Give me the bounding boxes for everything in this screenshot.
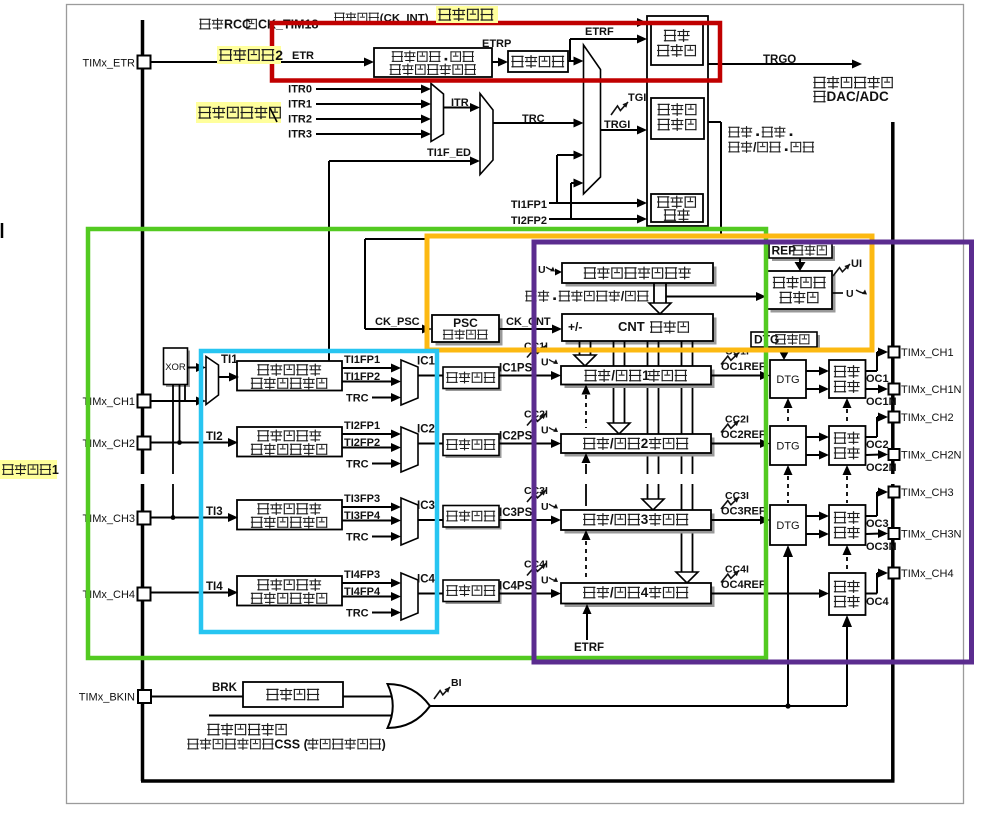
wire BRK: [151, 696, 243, 698]
wire TRC row3: [372, 532, 401, 541]
wire CH1 to TI1 mux: [151, 397, 206, 406]
svg-text:UI: UI: [851, 258, 862, 270]
svg-text:ITR1: ITR1: [288, 99, 312, 111]
label CK_PSC: [375, 316, 420, 328]
svg-text:IC3PS: IC3PS: [499, 507, 533, 519]
event arrow CC4I (left): [524, 559, 548, 576]
wires DTG2 to output control: [806, 433, 829, 460]
svg-text:ETRP: ETRP: [482, 38, 511, 50]
label TRGI: [604, 119, 630, 131]
wire XOR output to TI1 mux: [188, 363, 207, 372]
svg-text:TIMx_CH2: TIMx_CH2: [82, 438, 135, 450]
pin TIMx_CH3N: [889, 528, 900, 539]
label TRC row4: [346, 608, 369, 620]
update marker U row3: [541, 501, 558, 513]
update marker U row1: [541, 357, 558, 369]
box prescaler 预分频器 CH1: [443, 367, 502, 391]
label OC3REF: [721, 506, 766, 518]
wire TI1FP1 to encoder: [549, 199, 647, 208]
diagram frame bottom line: [141, 779, 895, 783]
box PSC prescaler: [432, 315, 503, 346]
svg-text:U: U: [541, 425, 549, 437]
wire CK_CNT: [499, 325, 562, 334]
box output control 2 输出控制: [829, 426, 866, 465]
label ITR: [451, 97, 469, 109]
label IC4: [417, 574, 436, 586]
box DTG register DTG寄存器: [751, 332, 820, 350]
XOR tap from CH2: [177, 385, 182, 445]
label OC2N: [866, 462, 897, 474]
svg-text:CC4I: CC4I: [725, 564, 749, 576]
wire IC3PS: [499, 516, 561, 525]
svg-text:U: U: [541, 357, 549, 369]
svg-text:TI3: TI3: [206, 506, 223, 518]
label OC3: [866, 518, 889, 530]
svg-text:BRK: BRK: [212, 682, 238, 694]
wire clock-fail to OR gate: [209, 715, 391, 717]
svg-text:TI1FP1: TI1FP1: [511, 199, 547, 211]
wire TI3FP4: [342, 516, 401, 525]
svg-text:IC4: IC4: [417, 574, 436, 586]
svg-text:U: U: [541, 501, 549, 513]
svg-text:OC2N: OC2N: [866, 462, 897, 474]
svg-text:TRGO: TRGO: [763, 54, 796, 66]
label ETRF: [585, 26, 614, 38]
label TIMx_CH3 (right): [901, 487, 954, 499]
wire TI1FP2: [342, 377, 401, 386]
svg-text:TI3FP3: TI3FP3: [344, 493, 380, 505]
label TI1FP2: [344, 371, 380, 383]
bus CNT to capture/compare 1: [574, 341, 596, 366]
svg-text:TIMx_BKIN: TIMx_BKIN: [79, 692, 135, 704]
svg-text:U: U: [538, 264, 546, 276]
update marker U into auto-reload: [538, 264, 562, 276]
label 来自RCC的CK_TIM18: [199, 17, 318, 31]
event arrow TGI: [611, 102, 628, 115]
label 停止、清除或向上/向下: [525, 289, 648, 303]
label to other timers 至其它定时器: [813, 76, 892, 89]
event arrow CC3I (right): [721, 490, 749, 509]
event arrow CC1I (right): [721, 346, 749, 365]
wires DTG3 to output control: [806, 512, 829, 539]
label TIMx_CH3N (right): [901, 529, 962, 541]
svg-text:TI4FP4: TI4FP4: [344, 586, 381, 598]
box repetition counter 重复次数计数器: [767, 271, 836, 313]
label ITR0: [288, 84, 312, 96]
label 时钟失效事件: [207, 723, 286, 736]
event arrow CC1I (left): [524, 341, 548, 358]
svg-text:IC1PS: IC1PS: [499, 363, 533, 375]
event arrow CC2I (right): [721, 414, 749, 433]
box trigger controller 触发控制器: [651, 24, 703, 65]
svg-text:TIMx_CH1: TIMx_CH1: [901, 347, 954, 359]
label ITR1: [288, 99, 312, 111]
label IC3PS: [499, 507, 533, 519]
svg-text:OC2: OC2: [866, 439, 889, 451]
svg-text:OC4: OC4: [866, 596, 890, 608]
svg-text:TI4FP3: TI4FP3: [344, 569, 380, 581]
label TI3FP3: [344, 493, 380, 505]
label OC2: [866, 439, 889, 451]
wire IC1PS: [499, 371, 561, 380]
svg-text:TI2FP2: TI2FP2: [344, 437, 380, 449]
wire TI1FP1: [342, 364, 401, 373]
label OC2REF: [721, 429, 766, 441]
wire OC2N to pin: [866, 450, 888, 459]
svg-text:CC3I: CC3I: [725, 490, 749, 502]
wire IC4 with tick: [418, 587, 443, 600]
box encoder interface 编码器接口: [651, 194, 703, 222]
update marker U at repetition counter: [832, 288, 867, 300]
box output control 1 输出控制: [829, 360, 866, 398]
label 来自时钟控制器CSS: [187, 737, 385, 751]
svg-text:TI2FP2: TI2FP2: [511, 215, 547, 227]
arrow REP to repetition counter: [795, 258, 806, 271]
wire IC3 with tick: [418, 514, 443, 527]
svg-text:OC2REF: OC2REF: [721, 429, 766, 441]
label up/down count 向上/向下、计数: [728, 140, 814, 154]
box capture/compare register 2 捕获/比较2寄存器: [561, 434, 715, 457]
wire CH2 to filter: [151, 438, 238, 447]
label OC3N: [866, 541, 897, 553]
svg-text:3: 3: [641, 512, 649, 527]
pin TIMx_CH1: [889, 347, 900, 358]
label TRC: [522, 113, 545, 125]
svg-text:CK_CNT: CK_CNT: [506, 316, 551, 328]
svg-text:TIMx_CH1: TIMx_CH1: [82, 396, 135, 408]
dashed feed into CC1: [582, 385, 591, 429]
diagram frame right line (with seam gap): [891, 122, 895, 781]
label TI1: [221, 354, 238, 366]
wire TRC row4: [372, 608, 401, 617]
svg-text:CSS (: CSS (: [274, 737, 308, 751]
label TI2FP1: [344, 420, 380, 432]
wire TRGI: [601, 126, 648, 135]
svg-text:TGI: TGI: [628, 92, 646, 104]
svg-text:TRC: TRC: [522, 113, 545, 125]
label TI3: [206, 506, 223, 518]
label TI4FP3: [344, 569, 380, 581]
wire OC3REF to DTG: [711, 516, 770, 525]
svg-text:TI2FP1: TI2FP1: [344, 420, 380, 432]
label IC1PS: [499, 363, 533, 375]
svg-text:/: /: [621, 289, 625, 303]
dashed feed into CC3: [582, 530, 591, 578]
box input filter+edge detector CH4: [237, 576, 342, 606]
svg-text:/: /: [610, 585, 614, 600]
svg-text:TRC: TRC: [346, 459, 369, 471]
wire TI4FP3: [342, 579, 401, 588]
box DTG1: [770, 360, 806, 398]
OR gate: [388, 684, 431, 728]
event arrow BI: [434, 687, 450, 699]
box polarity select 极性选择: [243, 682, 343, 707]
update marker U row2: [541, 425, 558, 437]
svg-text:TIMx_CH4: TIMx_CH4: [901, 568, 954, 580]
box polarity select/edge detect/prescaler: [374, 48, 492, 77]
annotation green box (external clock 1 region): [88, 229, 766, 658]
pin TIMx_ETR: [138, 56, 151, 69]
box input filter+edge detector CH2: [237, 427, 342, 457]
svg-text:OC1N: OC1N: [866, 396, 897, 408]
svg-text:ETRF: ETRF: [585, 26, 614, 38]
svg-text:IC2: IC2: [417, 424, 435, 436]
svg-text:OC4REF: OC4REF: [721, 579, 766, 591]
label TIMx_CH4 (left): [82, 589, 135, 601]
svg-text:ETR: ETR: [292, 50, 314, 62]
svg-text:/: /: [610, 512, 614, 527]
label to DAC/ADC 至 DAC/ADC: [813, 89, 889, 104]
mux TRC select: [480, 94, 493, 175]
label OC1N: [866, 396, 897, 408]
wire TRC: [493, 119, 584, 128]
wire ITR3: [316, 130, 431, 139]
svg-text:IC1: IC1: [417, 356, 436, 368]
wire to repetition counter: [666, 292, 766, 301]
svg-text:TI1: TI1: [221, 354, 238, 366]
label TIMx_ETR: [82, 58, 135, 70]
svg-text:+/-: +/-: [568, 320, 582, 334]
box auto-reload register 自动重装载寄存器: [562, 263, 717, 287]
svg-text:TIMx_CH2N: TIMx_CH2N: [901, 450, 962, 462]
label TI1FP1 (encoder): [511, 199, 547, 211]
wire ITR: [444, 103, 481, 112]
svg-text:XOR: XOR: [165, 362, 186, 373]
svg-text:CC2I: CC2I: [725, 414, 749, 426]
mux TI1 select: [206, 357, 219, 405]
box REP register REP寄存器: [769, 243, 835, 261]
mux IC1 select: [401, 360, 418, 405]
svg-text:TI1FP2: TI1FP2: [344, 371, 380, 383]
wire TI1FP1 riser to mux: [557, 151, 584, 204]
label TIMx_CH3 (left): [82, 513, 135, 525]
svg-text:TI4: TI4: [206, 581, 223, 593]
svg-text:IC3: IC3: [417, 500, 435, 512]
wire ETRF into CC4: [583, 604, 592, 640]
svg-text:OC1: OC1: [866, 373, 889, 385]
label ETR: [292, 50, 314, 62]
annotation cyan box (input stage region): [201, 351, 437, 632]
box capture/compare register 3 捕获/比较3寄存器: [561, 510, 715, 534]
label OC4: [866, 596, 890, 608]
wire IC2PS: [499, 439, 561, 448]
wire ETRF: [570, 35, 647, 44]
wire slave ctrl to CK_PSC: [365, 122, 721, 329]
svg-text:ITR: ITR: [451, 97, 469, 109]
svg-text:TI3FP4: TI3FP4: [344, 510, 381, 522]
svg-text:CK_PSC: CK_PSC: [375, 316, 420, 328]
svg-text:TI1FP1: TI1FP1: [344, 354, 380, 366]
annotation purple box (capture/compare region): [534, 242, 972, 662]
arrow DTG register to DTG1: [780, 347, 789, 360]
annotation red box (internal clock path): [272, 23, 720, 81]
box DTG2: [770, 426, 806, 465]
mux ITR select: [431, 84, 444, 142]
yellow label 内部时钟: [436, 6, 498, 23]
XOR tap from CH1: [184, 385, 186, 402]
label UI: [851, 258, 862, 270]
svg-text:REP: REP: [772, 243, 797, 257]
wire TI2FP2 to encoder: [549, 215, 647, 224]
wire OC3N to pin: [866, 529, 888, 538]
svg-text:4: 4: [641, 585, 649, 600]
label IC4PS: [499, 581, 533, 593]
svg-text:TRC: TRC: [346, 608, 369, 620]
wire TRC row2: [372, 459, 401, 468]
label TI1F_ED: [427, 147, 471, 159]
label ETRF (bottom): [574, 642, 604, 654]
wire TRGO: [708, 60, 862, 69]
label OC1REF: [721, 361, 766, 373]
wire OC3 to pin: [866, 488, 888, 517]
svg-text:IC2PS: IC2PS: [499, 431, 533, 443]
bus CNT to capture/compare 2: [608, 341, 630, 434]
box DTG3: [770, 505, 806, 545]
svg-text:TIMx_CH3N: TIMx_CH3N: [901, 529, 962, 541]
label TI2: [206, 431, 223, 443]
svg-text:TIMx_CH2: TIMx_CH2: [901, 412, 954, 424]
box prescaler 预分频器 CH4: [443, 580, 502, 604]
dashed feed into CC2: [582, 453, 591, 506]
svg-text:ITR2: ITR2: [288, 114, 312, 126]
label TRGO: [763, 54, 796, 66]
pin TIMx_CH1N: [889, 384, 900, 395]
XOR tap from CH3 (seam gap): [171, 385, 176, 520]
box slave mode controller 从模式控制器: [651, 98, 704, 139]
label ITR2: [288, 114, 312, 126]
wire TI2FP2: [342, 443, 401, 452]
bus CNT to capture/compare 4: [676, 341, 698, 583]
wires DTG1 to output control: [806, 367, 829, 394]
label IC3: [417, 500, 435, 512]
mux IC2 select: [401, 427, 418, 472]
bus CNT to capture/compare 3: [642, 341, 664, 510]
wire OC1REF to DTG: [711, 371, 770, 380]
wire TI3FP3: [342, 503, 401, 512]
box input filter+edge detector CH1: [237, 361, 342, 391]
box output control 3 输出控制: [829, 505, 866, 545]
wire CH3 to filter: [151, 513, 238, 522]
svg-text:DTG: DTG: [776, 374, 799, 386]
label TIMx_CH2N (right): [901, 450, 962, 462]
wire OC4 to pin: [865, 569, 888, 594]
label TI2FP2: [344, 437, 380, 449]
svg-text:OC1REF: OC1REF: [721, 361, 766, 373]
left edge artifact mark: [1, 223, 4, 238]
svg-text:1: 1: [52, 463, 59, 477]
feed column output-control (from break): [842, 398, 852, 706]
svg-text:OC3N: OC3N: [866, 541, 897, 553]
wire BI to output controls: [429, 705, 847, 707]
wire TI2FP2 riser to mux: [571, 179, 584, 220]
box capture/compare register 4 捕获/比较4寄存器: [561, 583, 715, 607]
svg-text:): ): [382, 737, 386, 751]
wire TI4FP4: [342, 592, 401, 601]
svg-text:TIMx_CH4: TIMx_CH4: [82, 589, 135, 601]
wire OC2REF to DTG: [711, 439, 770, 448]
label TIMx_CH2 (left): [82, 438, 135, 450]
label TI4FP4: [344, 586, 381, 598]
svg-text:TI1F_ED: TI1F_ED: [427, 147, 471, 159]
label TIMx_CH4 (right): [901, 568, 954, 580]
wire CH4 to filter: [151, 588, 238, 597]
svg-text:DTG: DTG: [776, 520, 799, 532]
svg-text:TRC: TRC: [346, 532, 369, 544]
pin TIMx_BKIN: [138, 690, 151, 703]
svg-text:2: 2: [641, 436, 649, 451]
wire polarity to OR gate: [343, 696, 391, 698]
pin TIMx_CH4: [138, 588, 151, 601]
label TI4: [206, 581, 223, 593]
pin TIMx_CH3: [138, 512, 151, 525]
svg-text:PSC: PSC: [453, 316, 478, 330]
pin TIMx_CH4: [889, 568, 900, 579]
box prescaler 预分频器 CH2: [443, 434, 502, 458]
svg-text:2: 2: [275, 47, 283, 63]
label OC4REF: [721, 579, 766, 591]
wire IC4PS: [499, 589, 561, 598]
pin TIMx_CH2: [889, 412, 900, 423]
svg-text:DAC/ADC: DAC/ADC: [827, 89, 889, 104]
svg-text:TIMx_CH3: TIMx_CH3: [901, 487, 954, 499]
svg-text:DTG: DTG: [776, 441, 799, 453]
label TGI: [628, 92, 646, 104]
wire filter output to mux: [568, 39, 584, 66]
svg-text:OC3: OC3: [866, 518, 889, 530]
label TIMx_CH2 (right): [901, 412, 954, 424]
svg-text:U: U: [846, 288, 854, 300]
svg-text:BI: BI: [451, 677, 462, 689]
mux trigger select: [584, 45, 601, 194]
mux IC3 select: [401, 498, 418, 545]
label TIMx_CH1 (right): [901, 347, 954, 359]
diagram frame left line (with seam gap): [141, 20, 145, 781]
svg-text:TI2: TI2: [206, 431, 223, 443]
wire TI2FP1: [342, 430, 401, 439]
svg-text:CNT: CNT: [618, 319, 645, 334]
box XOR: [164, 348, 191, 387]
feed column DTG (from break): [783, 398, 793, 709]
label reset/enable 复位、使能、: [728, 126, 792, 138]
yellow label 外部时钟2: [217, 46, 283, 64]
hollow arrow auto-reload to CNT: [649, 283, 671, 314]
event arrow CC3I (left): [524, 485, 548, 502]
wire CK_PSC into PSC: [365, 325, 432, 334]
wire TIMx_ETR to polarity box: [151, 58, 374, 67]
label CK_CNT: [506, 316, 551, 328]
annotation orange box (counter region): [427, 236, 872, 350]
svg-text:OC3REF: OC3REF: [721, 506, 766, 518]
label TI3FP4: [344, 510, 381, 522]
label 内部时钟 (CK_INT): [334, 12, 428, 24]
wire ITR0: [316, 85, 431, 94]
svg-text:IC4PS: IC4PS: [499, 581, 533, 593]
svg-text:ITR0: ITR0: [288, 84, 312, 96]
svg-text:TRC: TRC: [346, 393, 369, 405]
box capture/compare register 1 捕获/比较1寄存器: [561, 366, 715, 388]
label IC2: [417, 424, 435, 436]
pin TIMx_CH2N: [889, 449, 900, 460]
wire OC4REF to output control: [711, 589, 829, 598]
box CNT counter: [562, 314, 717, 345]
svg-text:ITR3: ITR3: [288, 129, 312, 141]
wire OC1 to pin: [866, 348, 888, 372]
wire CK_INT: [427, 18, 647, 27]
label IC2PS: [499, 431, 533, 443]
event arrow CC4I (right): [721, 564, 749, 583]
pin TIMx_CH3: [889, 487, 900, 498]
label TI1FP1: [344, 354, 380, 366]
